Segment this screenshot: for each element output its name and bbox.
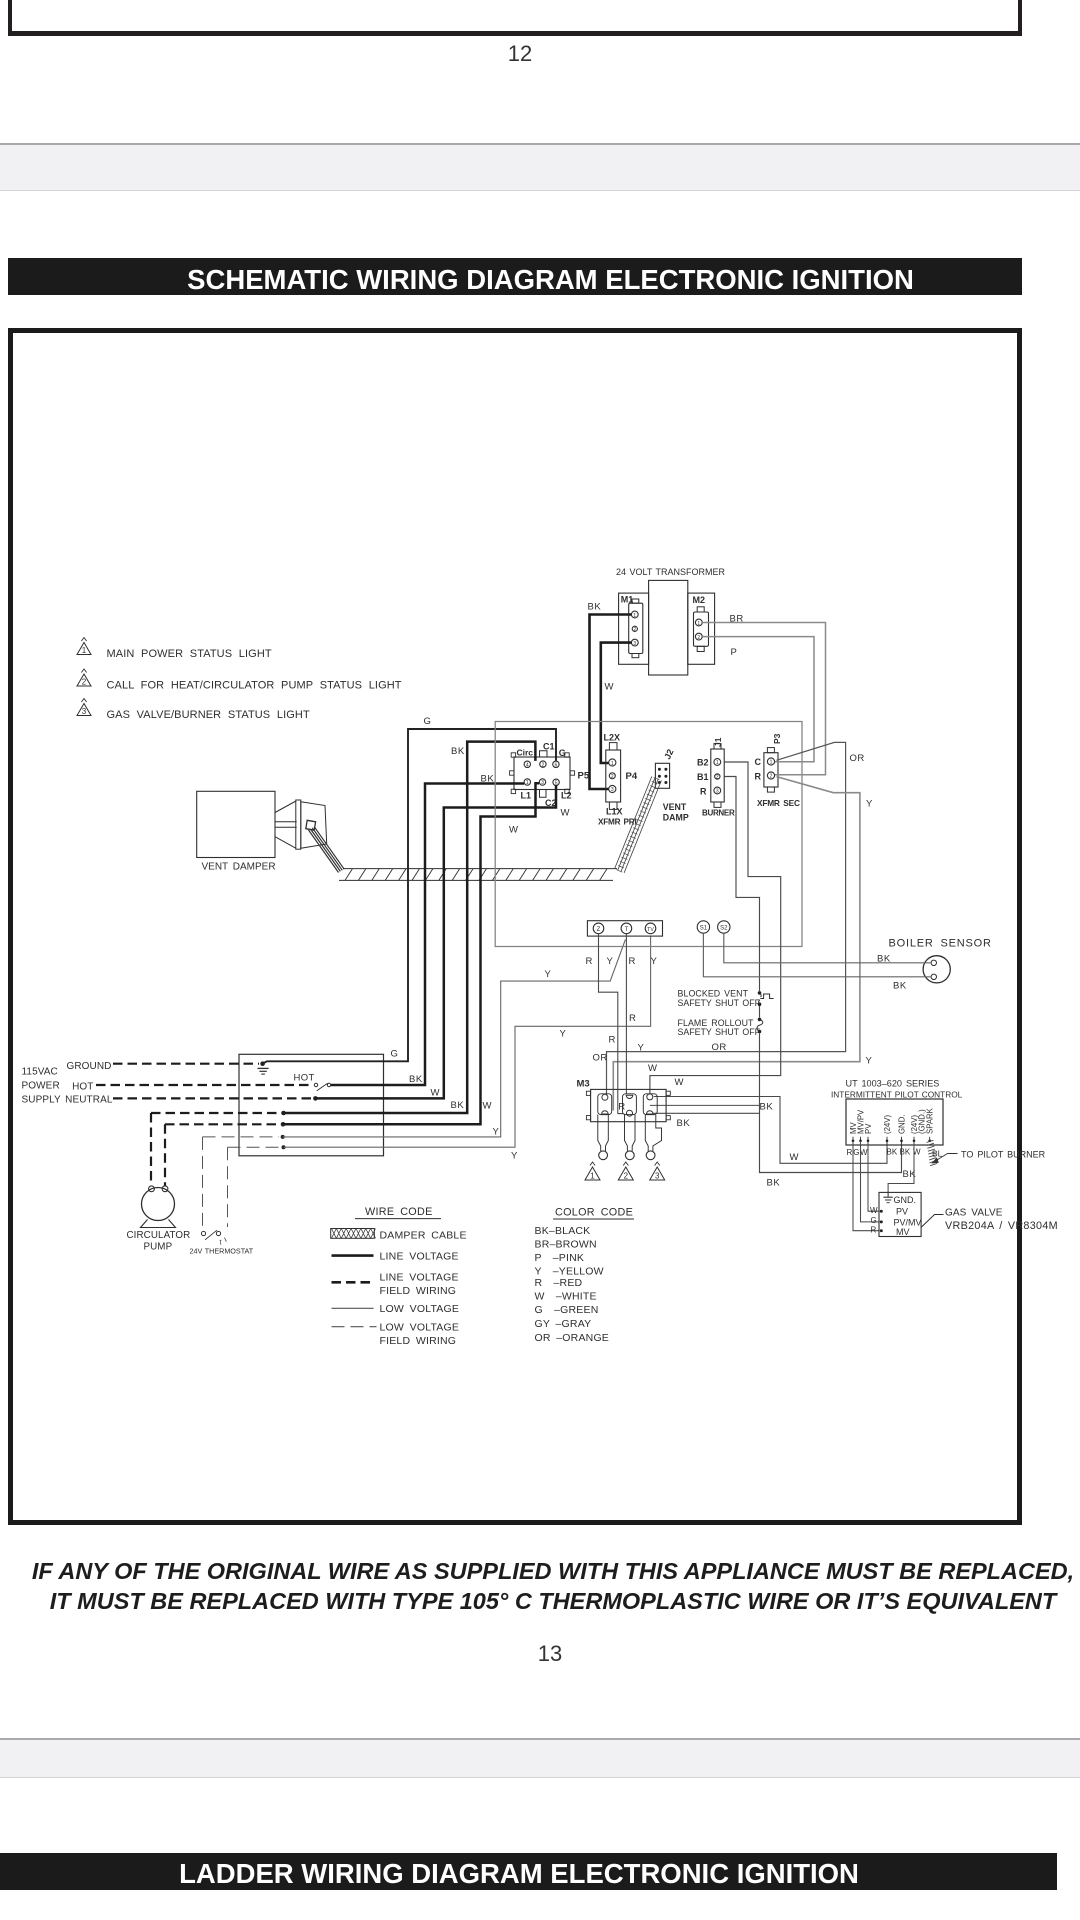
M2 pin 2 xyxy=(695,633,702,640)
svg-text:G: G xyxy=(391,1049,399,1060)
svg-text:NEUTRAL: NEUTRAL xyxy=(65,1095,113,1106)
svg-text:Z: Z xyxy=(597,927,601,933)
svg-text:24V THERMOSTAT: 24V THERMOSTAT xyxy=(190,1247,254,1256)
connector M2 terminal strip xyxy=(694,612,709,646)
svg-text:BOILER SENSOR: BOILER SENSOR xyxy=(889,938,992,950)
P3 pin R xyxy=(767,772,774,779)
svg-text:W: W xyxy=(675,1077,684,1088)
M3 unit3 pins xyxy=(647,1094,653,1100)
svg-text:(24V): (24V) xyxy=(883,1115,892,1134)
relay P5 pin 3 xyxy=(539,779,545,785)
svg-text:Y: Y xyxy=(638,1043,645,1054)
svg-text:PUMP: PUMP xyxy=(144,1242,173,1253)
svg-text:FIELD WIRING: FIELD WIRING xyxy=(380,1285,457,1297)
terminal S1 xyxy=(697,921,709,933)
M3 lamp1 stem and bulb xyxy=(598,1115,601,1151)
page number 12 xyxy=(460,41,580,67)
wire BK S1 to sensor xyxy=(703,933,931,977)
M3 lamp3 stem and bulb xyxy=(645,1115,648,1151)
relay P5 jumper C1 xyxy=(540,751,548,757)
svg-text:GAS VALVE: GAS VALVE xyxy=(945,1208,1003,1219)
svg-text:J2: J2 xyxy=(662,748,675,761)
J2 pins xyxy=(658,768,661,771)
svg-text:W –WHITE: W –WHITE xyxy=(535,1291,597,1303)
svg-text:P –PINK: P –PINK xyxy=(535,1252,585,1264)
vent damper actuator motor body xyxy=(301,802,327,849)
svg-text:S1: S1 xyxy=(700,926,708,932)
wire G ground to relay xyxy=(263,729,556,1064)
connector J1 burner body xyxy=(711,749,724,802)
transformer right plate M2 xyxy=(688,593,715,664)
svg-text:SPARK: SPARK xyxy=(926,1107,935,1134)
svg-text:R: R xyxy=(618,1102,625,1113)
svg-text:W: W xyxy=(648,1063,657,1074)
pump neutral junction dot xyxy=(281,1122,286,1127)
wire NEUTRAL field dashed xyxy=(113,1097,312,1099)
M3 unit1 pins xyxy=(602,1094,608,1100)
bottom black bar: LADDER WIRING DIAGRAM ELECTRONIC IGNITION xyxy=(0,1853,1057,1890)
P4 pin L1X xyxy=(609,785,616,792)
svg-text:MAIN POWER STATUS LIGHT: MAIN POWER STATUS LIGHT xyxy=(107,648,272,660)
svg-text:BR–BROWN: BR–BROWN xyxy=(535,1239,597,1251)
ground junction dot xyxy=(260,1061,265,1066)
M1 pin 1 xyxy=(631,611,638,618)
wire BK S2 to sensor xyxy=(724,933,931,963)
svg-text:VENT: VENT xyxy=(663,802,687,812)
svg-text:Y: Y xyxy=(607,956,614,967)
svg-text:G: G xyxy=(424,716,432,727)
svg-text:3: 3 xyxy=(633,641,636,647)
wire W neutral to relay L2 xyxy=(315,786,556,1099)
note triangle 2 xyxy=(77,674,91,686)
svg-text:C: C xyxy=(755,757,762,767)
P4 pin L2X xyxy=(609,759,616,766)
svg-text:2: 2 xyxy=(697,635,700,641)
gas valve leader xyxy=(922,1215,944,1228)
transformer T1 core xyxy=(649,580,688,675)
svg-text:TO PILOT BURNER: TO PILOT BURNER xyxy=(961,1150,1046,1160)
wire BR M2 to P3 R xyxy=(702,623,825,775)
svg-text:OR: OR xyxy=(593,1053,608,1064)
svg-text:3: 3 xyxy=(716,789,719,795)
svg-text:1: 1 xyxy=(590,1172,595,1181)
connector M1 terminal strip xyxy=(629,603,643,653)
svg-text:4: 4 xyxy=(526,763,529,769)
svg-text:BK: BK xyxy=(893,981,907,992)
page number 13 xyxy=(490,1641,610,1667)
svg-text:P3: P3 xyxy=(772,733,782,744)
M3 unit2 pins xyxy=(626,1095,633,1098)
M3 unit3 outline xyxy=(643,1094,657,1115)
svg-text:OR –ORANGE: OR –ORANGE xyxy=(535,1332,610,1344)
svg-text:6: 6 xyxy=(555,763,558,769)
wire BK M1-1 to L1X xyxy=(590,615,632,790)
svg-text:HOT: HOT xyxy=(294,1073,315,1084)
svg-text:TV: TV xyxy=(647,927,654,933)
svg-text:R: R xyxy=(629,1013,636,1024)
svg-text:SUPPLY: SUPPLY xyxy=(22,1095,62,1106)
vent damper actuator cone xyxy=(275,801,296,813)
status triangle 3 xyxy=(650,1167,665,1180)
terminal TV xyxy=(645,923,656,934)
svg-text:HOT: HOT xyxy=(72,1082,93,1093)
legend low voltage xyxy=(332,1307,374,1309)
relay P5 pin 6 G xyxy=(553,761,559,767)
wire vent damper sense loop xyxy=(495,722,802,947)
svg-text:BK: BK xyxy=(451,746,465,757)
svg-text:R: R xyxy=(847,1148,853,1157)
flame rollout switch xyxy=(758,1018,762,1022)
svg-text:B1: B1 xyxy=(697,772,709,782)
svg-text:L1: L1 xyxy=(521,791,532,801)
svg-text:Y: Y xyxy=(651,956,658,967)
svg-text:PV/MV: PV/MV xyxy=(894,1218,922,1228)
svg-text:POWER: POWER xyxy=(22,1081,60,1092)
wire circulator pump neutral dashed xyxy=(164,1124,166,1186)
relay P5 pin 4 coil xyxy=(524,761,530,767)
wire B2 to M3 lamp3 W xyxy=(650,762,781,1095)
svg-text:1: 1 xyxy=(611,761,614,767)
svg-text:W: W xyxy=(605,682,614,693)
thermostat row dot 1 xyxy=(281,1135,285,1139)
gas valve ground symbol xyxy=(887,1192,889,1196)
blocked vent switch xyxy=(758,991,762,995)
svg-text:FIELD WIRING: FIELD WIRING xyxy=(380,1335,457,1347)
svg-text:BK: BK xyxy=(481,774,495,785)
svg-text:DAMPER CABLE: DAMPER CABLE xyxy=(380,1230,467,1242)
svg-text:OR: OR xyxy=(712,1042,727,1053)
svg-text:VENT DAMPER: VENT DAMPER xyxy=(202,862,276,873)
svg-text:W: W xyxy=(790,1152,799,1163)
svg-text:BK: BK xyxy=(409,1074,423,1085)
svg-text:L2: L2 xyxy=(561,791,572,801)
vent damper actuator connector xyxy=(306,820,316,830)
relay P5 pin 1 L1 xyxy=(524,779,530,785)
M2 pin 1 xyxy=(695,619,702,626)
svg-text:W: W xyxy=(860,1148,868,1157)
svg-text:PV: PV xyxy=(896,1207,908,1217)
svg-text:LINE VOLTAGE: LINE VOLTAGE xyxy=(380,1251,459,1263)
relay P5 jumper C2 xyxy=(540,790,547,798)
connector P3 body xyxy=(764,753,778,787)
svg-text:G: G xyxy=(559,748,566,758)
svg-text:1: 1 xyxy=(770,760,773,766)
svg-text:3: 3 xyxy=(611,787,614,793)
svg-text:PV: PV xyxy=(864,1123,873,1134)
svg-text:BK: BK xyxy=(760,1102,774,1113)
legend line voltage field wiring xyxy=(332,1281,374,1284)
svg-text:LINE VOLTAGE: LINE VOLTAGE xyxy=(380,1272,459,1284)
svg-text:BK: BK xyxy=(451,1100,465,1111)
neutral junction dot xyxy=(313,1096,318,1101)
wire M3 lamp3 tap xyxy=(650,1104,760,1106)
relay P5 body xyxy=(514,757,570,790)
svg-text:R –RED: R –RED xyxy=(535,1277,583,1289)
wire W M1-3 to L2X xyxy=(601,643,632,763)
wire thermostat dashed 2 xyxy=(227,1147,229,1227)
vent damper actuator shaft xyxy=(275,821,297,823)
wire OR P3-C to M3 xyxy=(607,742,846,1095)
wire B1 to safety chain upper xyxy=(724,777,759,992)
svg-text:Y: Y xyxy=(866,799,873,810)
svg-text:2: 2 xyxy=(82,678,87,687)
M3 unit2 outline xyxy=(623,1094,637,1115)
svg-text:R: R xyxy=(629,956,636,967)
svg-text:t: t xyxy=(220,1240,222,1247)
svg-text:SAFETY SHUT OFF: SAFETY SHUT OFF xyxy=(678,998,761,1008)
svg-text:BK: BK xyxy=(767,1178,781,1189)
wire BK hot to relay L1 xyxy=(331,784,524,1086)
svg-text:G: G xyxy=(871,1216,877,1225)
svg-text:GAS VALVE/BURNER STATUS LIGHT: GAS VALVE/BURNER STATUS LIGHT xyxy=(107,709,310,721)
svg-text:Y: Y xyxy=(545,969,552,980)
svg-text:1: 1 xyxy=(633,613,636,619)
svg-text:M2: M2 xyxy=(693,595,706,605)
svg-text:J1: J1 xyxy=(713,737,723,747)
boiler sensor pins xyxy=(931,960,936,965)
switch HOT xyxy=(314,1083,317,1086)
wire P M2 to P3 C xyxy=(702,637,814,762)
svg-text:COLOR CODE: COLOR CODE xyxy=(555,1207,633,1219)
svg-text:P4: P4 xyxy=(626,771,638,782)
pump row junction dot xyxy=(281,1111,286,1116)
relay P5 pin 5 L2 xyxy=(553,779,559,785)
svg-text:BK: BK xyxy=(877,954,891,965)
spark wire hatched xyxy=(927,1140,938,1165)
legend line voltage xyxy=(332,1254,374,1257)
wire R from T to M3 xyxy=(625,934,627,1094)
to pilot burner leader xyxy=(948,1153,958,1155)
svg-text:W: W xyxy=(561,808,570,819)
svg-text:BK: BK xyxy=(887,1148,898,1157)
svg-text:G: G xyxy=(853,1148,859,1157)
connector M3 housing xyxy=(591,1089,667,1121)
svg-text:3: 3 xyxy=(82,707,87,716)
svg-text:BK: BK xyxy=(677,1118,691,1129)
wire safety chain to GND BK xyxy=(760,1033,902,1172)
svg-text:P: P xyxy=(731,647,738,658)
main schematic frame xyxy=(8,328,1022,1525)
J1 pin B1 xyxy=(715,774,720,779)
wire BK row4 to relay pin2 xyxy=(284,742,536,1113)
svg-text:VRB204A / VR8304M: VRB204A / VR8304M xyxy=(945,1220,1058,1232)
M3 lamp2 stem and bulb xyxy=(625,1115,628,1151)
transformer left plate M1 xyxy=(619,593,649,664)
wire W PV to valve xyxy=(868,1142,879,1212)
svg-text:R: R xyxy=(586,956,593,967)
svg-text:1: 1 xyxy=(716,760,719,766)
svg-text:CIRCULATOR: CIRCULATOR xyxy=(127,1230,191,1241)
svg-text:XFMR SEC: XFMR SEC xyxy=(757,798,800,808)
P3 pin C xyxy=(767,758,774,765)
J1 pin R xyxy=(714,787,721,794)
svg-text:24 VOLT TRANSFORMER: 24 VOLT TRANSFORMER xyxy=(616,567,726,577)
wire R from Z to M3 xyxy=(599,934,624,1114)
svg-text:R: R xyxy=(871,1226,877,1235)
ignition control pin ticks xyxy=(852,1137,854,1141)
svg-text:2: 2 xyxy=(770,774,773,780)
svg-text:2: 2 xyxy=(611,774,614,780)
svg-text:S2: S2 xyxy=(720,926,728,932)
svg-text:Y: Y xyxy=(560,1029,567,1040)
svg-text:P5: P5 xyxy=(578,771,590,782)
note triangle 3 xyxy=(77,704,91,716)
wire Y row6 to T terminal xyxy=(283,940,626,1137)
wire R MV to valve xyxy=(853,1142,879,1231)
M1 pin 3 xyxy=(631,639,638,646)
terminal T xyxy=(621,923,632,934)
terminal strip ZTTV xyxy=(587,921,662,936)
svg-text:R: R xyxy=(755,772,762,782)
gray separator band bottom xyxy=(0,1738,1080,1778)
svg-text:WIRE CODE: WIRE CODE xyxy=(365,1206,433,1218)
svg-text:1: 1 xyxy=(697,621,700,627)
svg-text:GY –GRAY: GY –GRAY xyxy=(535,1318,592,1330)
svg-text:W: W xyxy=(483,1101,492,1112)
svg-text:DAMP: DAMP xyxy=(663,813,689,823)
svg-text:L1X: L1X xyxy=(606,807,623,817)
top page frame remnant (previous page border) xyxy=(8,0,12,35)
connector P4 XFMR PRI body xyxy=(606,750,621,802)
svg-text:L2X: L2X xyxy=(604,733,621,743)
junction box xyxy=(239,1054,384,1156)
svg-text:115VAC: 115VAC xyxy=(22,1067,58,1078)
wire safety chain mid xyxy=(759,1006,761,1018)
relay P5 pin 2 top xyxy=(540,761,546,767)
wire M3 lamp3 to 24V W xyxy=(654,1097,887,1164)
M3 unit1 outline xyxy=(598,1094,612,1115)
wire HOT field dashed xyxy=(96,1084,314,1086)
note triangle 1 xyxy=(77,643,91,655)
black title bar: SCHEMATIC WIRING DIAGRAM ELECTRONIC IGNITION xyxy=(8,258,1022,295)
svg-text:2: 2 xyxy=(624,1172,629,1181)
thermostat row dot 2 xyxy=(282,1145,286,1149)
svg-text:GND.: GND. xyxy=(897,1115,906,1135)
wire Y row7 to TV terminal xyxy=(284,936,651,1147)
damper cable bundle to J2 xyxy=(615,777,652,870)
J1 pin B2 xyxy=(714,759,721,766)
svg-text:Circ: Circ xyxy=(517,748,534,758)
svg-text:LOW VOLTAGE: LOW VOLTAGE xyxy=(380,1322,460,1334)
legend damper cable swatch xyxy=(331,1229,375,1239)
wire G MVPV to valve xyxy=(861,1142,880,1222)
24V thermostat switch xyxy=(201,1231,205,1235)
svg-text:INTERMITTENT PILOT CONTROL: INTERMITTENT PILOT CONTROL xyxy=(831,1090,963,1100)
damper cable hatched band xyxy=(343,868,617,870)
gas valve box xyxy=(879,1192,921,1236)
svg-text:BK: BK xyxy=(588,602,602,613)
svg-text:W: W xyxy=(870,1206,878,1215)
svg-text:3: 3 xyxy=(541,780,544,786)
circulator pump motor xyxy=(142,1188,175,1221)
legend low voltage field wiring xyxy=(332,1326,377,1328)
svg-text:1: 1 xyxy=(526,780,529,786)
connector J2 body xyxy=(655,763,669,788)
svg-text:BR: BR xyxy=(730,614,744,625)
svg-text:R: R xyxy=(609,1035,616,1046)
vent damper box xyxy=(197,791,275,857)
boiler sensor body xyxy=(923,956,950,983)
svg-text:W: W xyxy=(509,825,518,836)
svg-text:BK: BK xyxy=(900,1148,911,1157)
gray separator band top xyxy=(0,143,1080,191)
terminal Z xyxy=(593,923,604,934)
wire M3 lamp3 bottom BK xyxy=(653,1112,760,1114)
ignition control box xyxy=(846,1099,943,1145)
svg-text:BURNER: BURNER xyxy=(702,809,735,818)
svg-text:2: 2 xyxy=(633,627,636,633)
svg-text:W: W xyxy=(431,1088,440,1099)
svg-text:T: T xyxy=(625,927,629,933)
svg-text:M3: M3 xyxy=(577,1079,590,1090)
M1 pin 2 xyxy=(632,626,637,631)
wire circulator pump hot dashed xyxy=(150,1113,152,1186)
svg-text:B2: B2 xyxy=(697,758,709,768)
svg-text:Y –YELLOW: Y –YELLOW xyxy=(535,1266,604,1278)
wire BK 24V to valve GND xyxy=(888,1142,914,1193)
svg-text:LOW VOLTAGE: LOW VOLTAGE xyxy=(380,1303,460,1315)
vent damper cable bundle to cable xyxy=(309,830,339,873)
P4 pin 2 xyxy=(609,773,615,779)
svg-text:BK–BLACK: BK–BLACK xyxy=(535,1225,591,1237)
svg-text:2: 2 xyxy=(542,762,545,768)
svg-text:G –GREEN: G –GREEN xyxy=(535,1304,599,1316)
svg-text:Y: Y xyxy=(866,1056,873,1067)
gas valve terminal dots xyxy=(880,1210,883,1213)
svg-text:CALL FOR HEAT/CIRCULATOR PUMP: CALL FOR HEAT/CIRCULATOR PUMP STATUS LIG… xyxy=(107,680,402,692)
svg-text:OR: OR xyxy=(850,753,865,764)
svg-text:2: 2 xyxy=(716,775,719,781)
svg-text:GROUND: GROUND xyxy=(66,1061,111,1072)
status triangle 2 xyxy=(618,1167,633,1180)
svg-text:1: 1 xyxy=(82,646,87,655)
svg-text:Y: Y xyxy=(511,1151,518,1162)
wire W row5 to relay pin3 xyxy=(283,783,539,1124)
wire ground field dashed xyxy=(113,1063,259,1065)
svg-text:UT 1003–620 SERIES: UT 1003–620 SERIES xyxy=(846,1079,940,1089)
ground symbol junction box xyxy=(258,1067,269,1069)
wire thermostat dashed 1 xyxy=(202,1137,204,1229)
svg-text:GND.: GND. xyxy=(894,1195,917,1205)
wire Y P3-R to M3 xyxy=(613,777,860,1111)
bold italic replacement-wire notice xyxy=(13,1556,1080,1616)
svg-text:Y: Y xyxy=(493,1127,500,1138)
status triangle 1 xyxy=(585,1167,600,1180)
terminal S2 xyxy=(718,921,730,933)
svg-text:SAFETY SHUT OFF: SAFETY SHUT OFF xyxy=(678,1027,761,1037)
svg-text:3: 3 xyxy=(655,1172,660,1181)
svg-text:R: R xyxy=(700,787,707,797)
svg-text:XFMR PRI: XFMR PRI xyxy=(598,818,637,827)
svg-text:C1: C1 xyxy=(543,742,555,752)
svg-text:MV: MV xyxy=(896,1227,910,1237)
